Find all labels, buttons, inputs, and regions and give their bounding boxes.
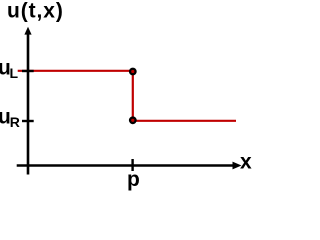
svg-text:p: p — [127, 168, 140, 191]
svg-text:R: R — [10, 114, 20, 130]
svg-text:u(t,x): u(t,x) — [7, 0, 64, 23]
svg-text:x: x — [240, 151, 252, 174]
svg-text:L: L — [10, 65, 19, 81]
